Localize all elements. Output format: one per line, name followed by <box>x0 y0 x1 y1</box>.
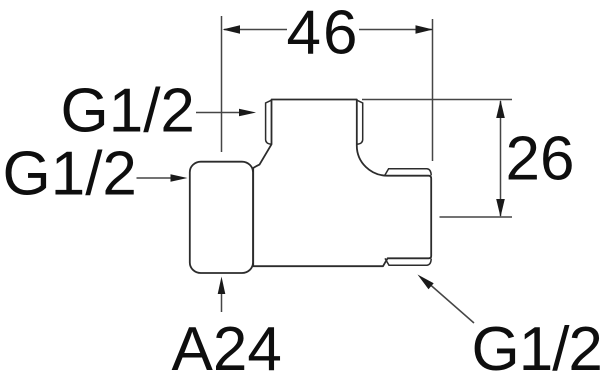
leader arrowhead G1/2 right port <box>418 275 434 290</box>
leader line G1/2 top port <box>196 112 241 114</box>
extension line top of 26 dimension <box>362 99 512 101</box>
leader arrowhead A24 <box>218 277 226 295</box>
svg-text:A24: A24 <box>172 315 282 374</box>
leader line G1/2 left port <box>137 177 173 179</box>
dimension line 46 right segment <box>359 29 432 31</box>
arrowhead 26 top <box>496 100 505 118</box>
fitting body outline <box>253 100 431 267</box>
leader arrowhead G1/2 top port <box>239 109 256 117</box>
top port chamfer band right <box>357 100 363 144</box>
arrowhead 46 right <box>416 25 434 34</box>
svg-text:G1/2: G1/2 <box>61 77 195 146</box>
svg-text:G1/2: G1/2 <box>472 315 600 374</box>
right port chamfer band bottom <box>385 258 431 265</box>
arrowhead 46 left <box>223 25 241 34</box>
left port cylinder <box>190 162 253 273</box>
arrowhead 26 bottom <box>496 199 505 217</box>
leader line A24 <box>221 294 223 312</box>
leader arrowhead G1/2 left port <box>171 174 188 182</box>
svg-text:26: 26 <box>506 125 575 194</box>
dimension line 26 <box>500 101 502 216</box>
extension line bottom of 26 dimension <box>440 216 513 218</box>
svg-text:46: 46 <box>287 0 360 68</box>
dimension line 46 left segment <box>224 29 287 31</box>
leader line G1/2 right port <box>430 285 474 324</box>
extension line left of 46 dimension (port axis) <box>221 16 223 152</box>
extension line right of 46 dimension (right port face) <box>432 19 434 161</box>
right port chamfer band top <box>385 169 432 176</box>
svg-text:G1/2: G1/2 <box>3 140 137 209</box>
top port chamfer band left <box>266 100 272 144</box>
